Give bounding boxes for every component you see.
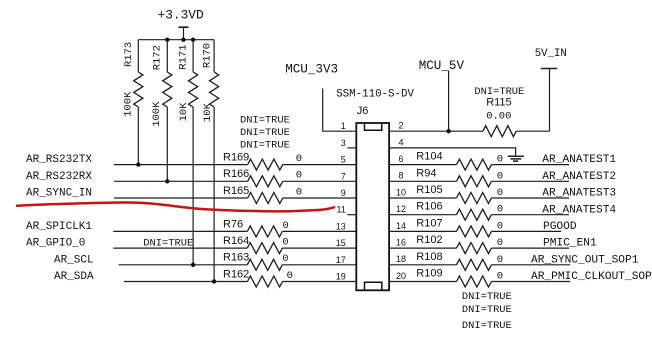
- connector J6 top key notch: [365, 124, 382, 131]
- junction R173/AR_RS232TX: [136, 162, 140, 166]
- svg-text:0: 0: [282, 253, 288, 265]
- wire R162 to pin 19: [283, 281, 357, 283]
- wire R102 to PMIC_EN1: [491, 247, 569, 249]
- resistor R173: [123, 40, 143, 165]
- svg-text:0: 0: [497, 220, 503, 232]
- wire pin 18 to R108: [389, 264, 456, 266]
- svg-text:AR_PMIC_CLKOUT_SOP: AR_PMIC_CLKOUT_SOP: [531, 271, 652, 283]
- wire R106 to AR_ANATEST4: [491, 214, 569, 216]
- wire pin 6 to R104: [389, 164, 456, 166]
- svg-text:AR_SYNC_IN: AR_SYNC_IN: [26, 188, 92, 200]
- svg-text:AR_ANATEST3: AR_ANATEST3: [542, 188, 616, 200]
- resistor R172: [151, 40, 172, 182]
- pin 11 stub: [347, 214, 356, 216]
- svg-text:0: 0: [296, 153, 302, 165]
- resistor R94: [416, 167, 503, 187]
- svg-text:R165: R165: [223, 185, 249, 197]
- wire AR_SPICLK1 to R76: [113, 230, 247, 232]
- wire pin 16 to R102: [389, 247, 456, 249]
- svg-text:12: 12: [396, 204, 406, 214]
- wire R163 to pin 17: [282, 264, 356, 266]
- svg-text:MCU_3V3: MCU_3V3: [285, 62, 338, 76]
- resistor R163: [223, 252, 289, 271]
- wire pin2 to R115: [389, 130, 483, 132]
- wire AR_SYNC_IN to R165: [114, 197, 248, 199]
- svg-text:0: 0: [497, 204, 503, 216]
- wire R76 to pin 13: [282, 230, 356, 232]
- svg-text:AR_ANATEST1: AR_ANATEST1: [542, 154, 616, 166]
- svg-text:15: 15: [336, 238, 346, 248]
- svg-text:10K: 10K: [178, 102, 190, 122]
- svg-text:18: 18: [396, 254, 406, 264]
- power 5V_IN: [535, 48, 567, 131]
- svg-text:R166: R166: [223, 168, 249, 180]
- svg-text:AR_GPIO_0: AR_GPIO_0: [26, 238, 85, 250]
- svg-text:AR_ANATEST2: AR_ANATEST2: [542, 171, 616, 183]
- wire R108 to AR_SYNC_OUT_SOP1: [491, 264, 570, 266]
- svg-text:0: 0: [497, 187, 503, 199]
- wire pin4 to ground: [389, 148, 515, 156]
- svg-text:0: 0: [497, 154, 503, 166]
- red annotation mark: [17, 202, 334, 211]
- wire R115 to 5V_IN: [516, 130, 549, 132]
- wire MCU_3V3 to pin 1: [323, 89, 357, 132]
- svg-text:11: 11: [336, 205, 345, 215]
- resistor R164: [223, 235, 289, 254]
- junction R171/AR_SCL: [191, 263, 195, 267]
- wire R109 to AR_PMIC_CLKOUT_SOP: [491, 281, 570, 283]
- svg-text:0: 0: [497, 254, 503, 266]
- svg-text:+3.3VD: +3.3VD: [158, 7, 204, 22]
- wire AR_SDA to R162: [124, 281, 248, 283]
- svg-text:R173: R173: [123, 42, 135, 67]
- svg-text:0: 0: [497, 271, 503, 283]
- svg-text:DNI=TRUE: DNI=TRUE: [240, 115, 290, 127]
- junction on bus at R171: [191, 38, 195, 42]
- wire pin 12 to R106: [389, 214, 456, 216]
- pin 3 stub: [347, 147, 356, 149]
- wire R107 to PGOOD: [491, 230, 561, 232]
- resistor R169: [223, 152, 302, 171]
- svg-text:R170: R170: [202, 43, 214, 68]
- svg-text:19: 19: [336, 272, 346, 282]
- svg-text:0.00: 0.00: [486, 110, 511, 122]
- svg-text:PMIC_EN1: PMIC_EN1: [543, 238, 597, 250]
- svg-text:DNI=TRUE: DNI=TRUE: [143, 238, 193, 250]
- svg-text:8: 8: [398, 171, 403, 181]
- resistor R102: [416, 234, 503, 254]
- wire R164 to pin 15: [282, 247, 356, 249]
- svg-text:AR_RS232RX: AR_RS232RX: [26, 171, 92, 183]
- connector J6 body: [356, 123, 389, 290]
- junction R172/AR_RS232RX: [165, 179, 169, 183]
- svg-text:9: 9: [341, 188, 346, 198]
- resistor R162: [223, 268, 293, 287]
- svg-text:PGOOD: PGOOD: [543, 221, 577, 233]
- ground: [508, 156, 524, 161]
- svg-text:6: 6: [398, 154, 403, 164]
- resistor R106: [416, 201, 503, 221]
- wire pin 10 to R105: [389, 197, 456, 199]
- svg-text:5V_IN: 5V_IN: [535, 48, 567, 60]
- junction MCU_5V/pin2: [446, 129, 450, 133]
- resistor R76: [223, 218, 289, 237]
- svg-text:R171: R171: [178, 44, 190, 69]
- wire AR_SCL to R163: [119, 264, 248, 266]
- svg-text:R172: R172: [151, 45, 163, 70]
- svg-text:1: 1: [341, 121, 346, 131]
- svg-text:0: 0: [296, 186, 302, 198]
- svg-text:MCU_5V: MCU_5V: [419, 59, 465, 73]
- svg-text:R94: R94: [416, 167, 436, 179]
- svg-text:R102: R102: [416, 234, 442, 246]
- svg-text:0: 0: [497, 170, 503, 182]
- svg-text:J6: J6: [357, 105, 369, 117]
- svg-text:0: 0: [296, 170, 302, 182]
- svg-text:7: 7: [341, 171, 346, 181]
- svg-text:14: 14: [396, 221, 406, 231]
- svg-text:AR_SYNC_OUT_SOP1: AR_SYNC_OUT_SOP1: [531, 254, 639, 266]
- resistor R105: [416, 184, 503, 204]
- svg-text:DNI=TRUE: DNI=TRUE: [462, 291, 512, 303]
- resistor R107: [416, 217, 503, 237]
- resistor R171: [178, 40, 198, 265]
- svg-text:R106: R106: [416, 201, 442, 213]
- svg-text:SSM-110-S-DV: SSM-110-S-DV: [336, 89, 414, 101]
- svg-text:R104: R104: [416, 151, 442, 163]
- svg-text:AR_SCL: AR_SCL: [54, 254, 94, 266]
- resistor R104: [416, 151, 503, 171]
- wire top bus: [138, 39, 214, 41]
- wire R165 to pin 9: [283, 197, 357, 199]
- svg-text:DNI=TRUE: DNI=TRUE: [462, 320, 512, 332]
- wire R94 to AR_ANATEST2: [491, 180, 569, 182]
- connector J6 bottom key notch: [365, 282, 382, 289]
- svg-text:0: 0: [497, 237, 503, 249]
- svg-text:0: 0: [282, 237, 288, 249]
- junction on bus at power stem: [181, 38, 185, 42]
- svg-text:DNI=TRUE: DNI=TRUE: [240, 139, 290, 151]
- svg-text:R76: R76: [223, 218, 243, 230]
- resistor R115: [474, 86, 524, 137]
- svg-text:10: 10: [396, 187, 406, 197]
- svg-text:0: 0: [283, 220, 289, 232]
- wire AR_RS232TX to R169: [114, 164, 248, 166]
- svg-text:DNI=TRUE: DNI=TRUE: [462, 304, 512, 316]
- power +3.3VD: [158, 7, 204, 39]
- svg-text:AR_SDA: AR_SDA: [54, 271, 94, 283]
- wire pin 8 to R94: [389, 180, 456, 182]
- svg-text:R169: R169: [223, 152, 249, 164]
- resistor R108: [416, 251, 503, 271]
- svg-text:AR_RS232TX: AR_RS232TX: [26, 154, 92, 166]
- svg-text:R163: R163: [223, 252, 249, 264]
- wire R104 to AR_ANATEST1: [491, 164, 569, 166]
- svg-text:13: 13: [336, 221, 346, 231]
- wire R105 to AR_ANATEST3: [491, 197, 569, 199]
- junction on bus at R172: [165, 38, 169, 42]
- wire MCU_5V stem: [448, 71, 450, 131]
- svg-text:DNI=TRUE: DNI=TRUE: [240, 127, 290, 139]
- svg-text:20: 20: [396, 271, 406, 281]
- svg-text:R115: R115: [486, 96, 511, 108]
- wire AR_RS232RX to R166: [114, 180, 248, 182]
- svg-text:3: 3: [341, 138, 346, 148]
- svg-text:AR_SPICLK1: AR_SPICLK1: [26, 221, 92, 233]
- svg-text:R164: R164: [223, 235, 249, 247]
- resistor R170: [202, 40, 219, 282]
- wire R166 to pin 7: [283, 180, 357, 182]
- resistor R165: [223, 185, 302, 204]
- svg-text:2: 2: [398, 121, 403, 131]
- junction R170/AR_SDA: [212, 279, 216, 283]
- svg-text:100K: 100K: [151, 101, 163, 127]
- svg-text:17: 17: [336, 255, 346, 265]
- svg-text:0: 0: [287, 270, 293, 282]
- resistor R166: [223, 168, 302, 187]
- wire pin 14 to R107: [389, 230, 456, 232]
- svg-text:R108: R108: [416, 251, 442, 263]
- svg-text:16: 16: [396, 238, 406, 248]
- svg-text:R105: R105: [416, 184, 442, 196]
- svg-text:5: 5: [341, 155, 346, 165]
- svg-text:R109: R109: [416, 268, 442, 280]
- svg-text:AR_ANATEST4: AR_ANATEST4: [542, 204, 616, 216]
- resistor R109: [416, 268, 503, 288]
- wire AR_GPIO_0 to R164: [113, 247, 247, 249]
- svg-text:R107: R107: [416, 217, 442, 229]
- svg-text:R162: R162: [223, 268, 249, 280]
- wire R169 to pin 5: [283, 164, 357, 166]
- wire pin 20 to R109: [389, 281, 456, 283]
- svg-text:4: 4: [398, 137, 403, 147]
